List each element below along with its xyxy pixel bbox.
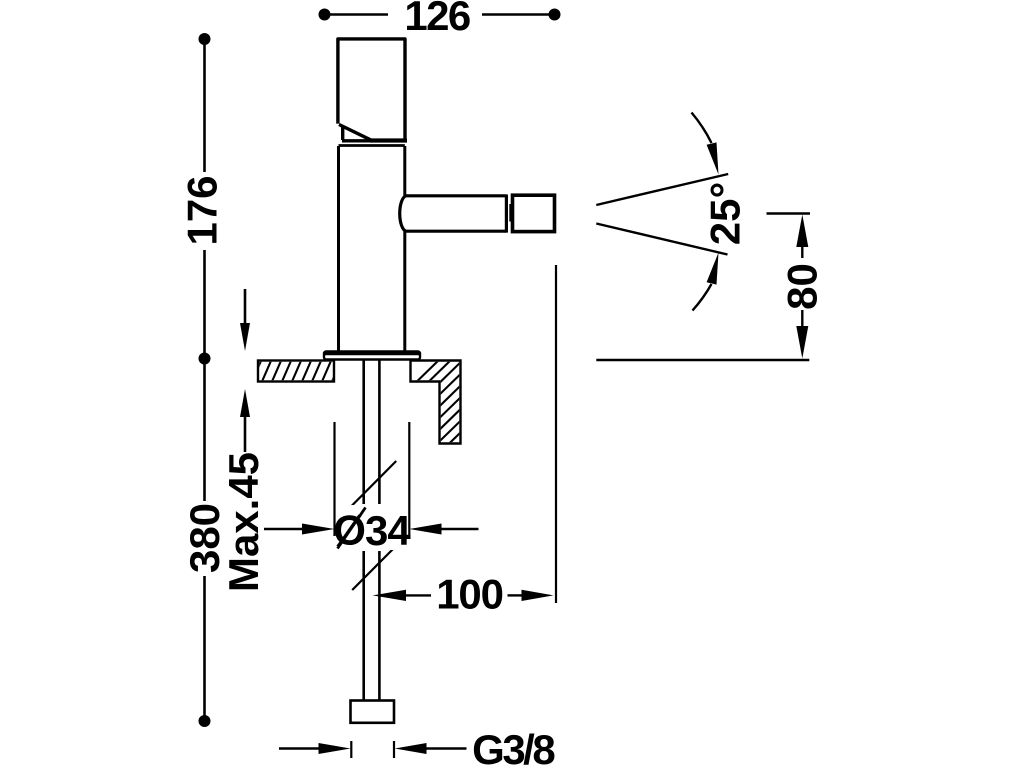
svg-text:80: 80 bbox=[779, 263, 826, 310]
dimension 126 top bbox=[319, 9, 561, 21]
dimension O34 bbox=[264, 524, 479, 535]
spout bbox=[400, 195, 511, 233]
extension line from spout tip bbox=[555, 265, 557, 603]
flange base bbox=[324, 352, 420, 360]
dimension 380 left lower bbox=[199, 364, 211, 727]
svg-text:G3/8: G3/8 bbox=[472, 726, 555, 768]
surface level line right bbox=[596, 359, 809, 361]
nut bbox=[351, 701, 395, 723]
svg-text:Ø34: Ø34 bbox=[333, 507, 411, 554]
svg-text:176: 176 bbox=[179, 175, 226, 245]
pipe break diagonals bbox=[351, 461, 397, 590]
svg-text:100: 100 bbox=[436, 571, 502, 618]
svg-text:Max.45: Max.45 bbox=[220, 452, 267, 592]
handle lever bbox=[338, 39, 407, 141]
aerator tip bbox=[513, 195, 555, 231]
Max.45 annotation bbox=[240, 289, 250, 452]
mounting surface right hatched L-block bbox=[326, 320, 636, 470]
dimension G3/8 bbox=[279, 741, 467, 758]
dimension 80 bbox=[767, 214, 811, 359]
svg-text:126: 126 bbox=[404, 0, 470, 39]
dimension 176 left bbox=[199, 33, 211, 365]
dimension 100 bbox=[373, 590, 554, 601]
mounting surface left hatched block bbox=[222, 350, 376, 450]
faucet body column bbox=[339, 146, 405, 352]
supply pipe bbox=[364, 361, 380, 701]
svg-text:25°: 25° bbox=[702, 182, 749, 246]
angle 25 deg bbox=[596, 113, 728, 311]
